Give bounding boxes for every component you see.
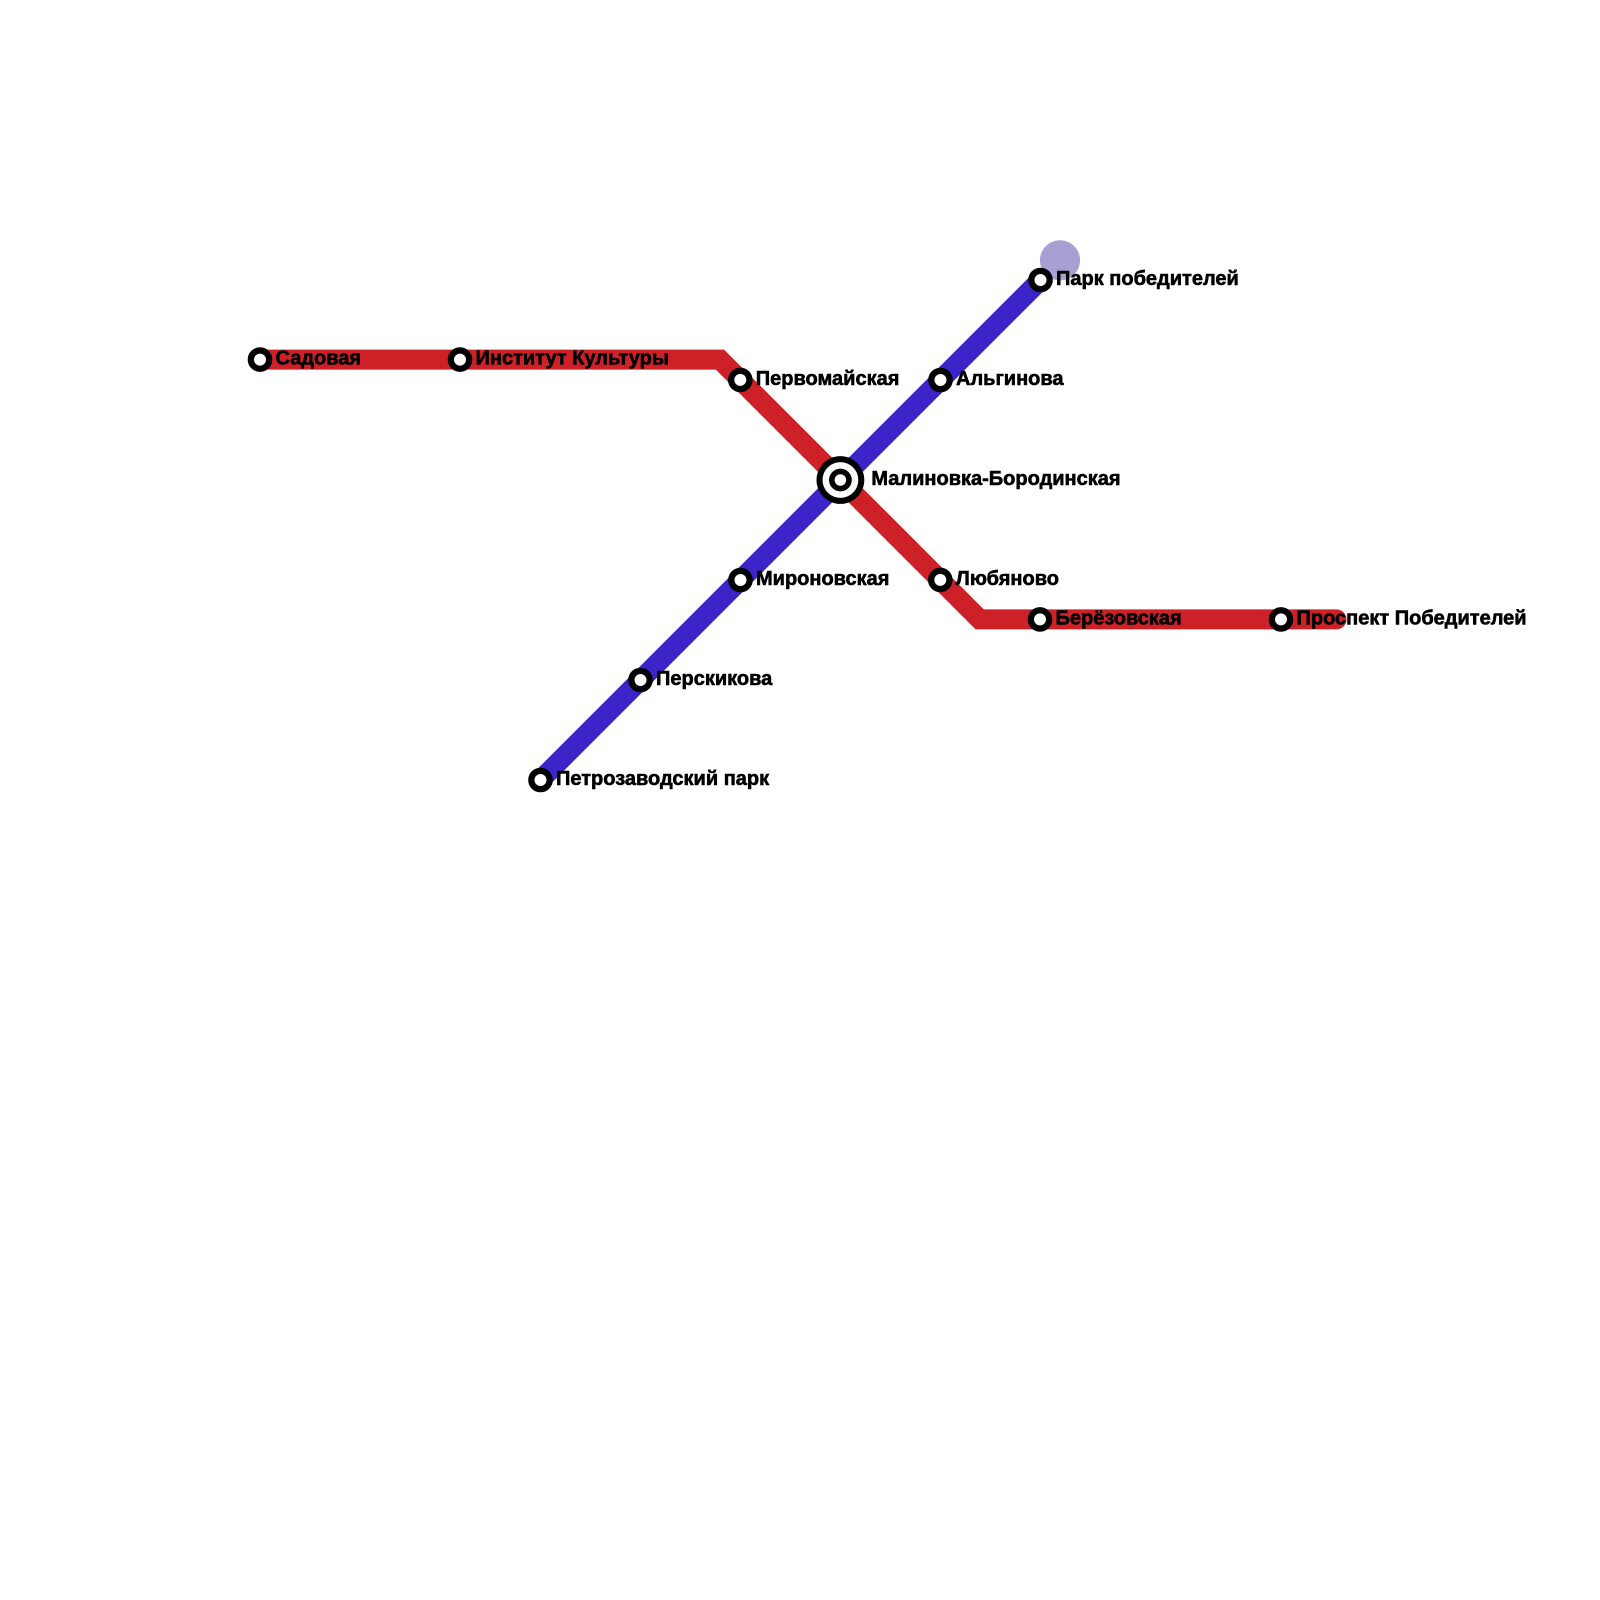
svg-text:Мироновская: Мироновская <box>756 568 889 590</box>
station Первомайская <box>731 371 749 389</box>
station Мироновская <box>731 571 749 589</box>
station Парк победителей <box>1031 271 1049 289</box>
svg-text:Альгинова: Альгинова <box>956 368 1064 390</box>
station Любяново <box>931 571 949 589</box>
svg-text:Садовая: Садовая <box>276 348 362 370</box>
svg-text:Берёзовская: Берёзовская <box>1056 607 1182 629</box>
station Перскикова <box>631 671 649 689</box>
blue line (Line 2): Парк победителей - Петрозаводский парк <box>541 280 1041 780</box>
svg-text:Институт Культуры: Институт Культуры <box>476 348 669 370</box>
red line (Line 1): Садовая - Проспект Победителей <box>260 360 1337 620</box>
station Институт Культуры <box>451 350 469 368</box>
station Альгинова <box>931 371 949 389</box>
svg-text:Первомайская: Первомайская <box>756 368 900 390</box>
svg-text:Петрозаводский парк: Петрозаводский парк <box>556 768 770 790</box>
station Петрозаводский парк <box>531 771 549 789</box>
park blob (lavender circle) near Парк победителей <box>1040 240 1080 280</box>
station Садовая <box>251 350 269 368</box>
interchange Малиновка-Бородинская <box>817 456 865 504</box>
svg-text:Малиновка-Бородинская: Малиновка-Бородинская <box>871 468 1120 490</box>
svg-text:Проспект Победителей: Проспект Победителей <box>1297 607 1527 629</box>
station Проспект Победителей <box>1272 610 1290 628</box>
svg-text:Парк победителей: Парк победителей <box>1056 268 1239 290</box>
station Берёзовская <box>1031 610 1049 628</box>
svg-text:Перскикова: Перскикова <box>656 668 773 690</box>
svg-text:Любяново: Любяново <box>956 568 1059 590</box>
